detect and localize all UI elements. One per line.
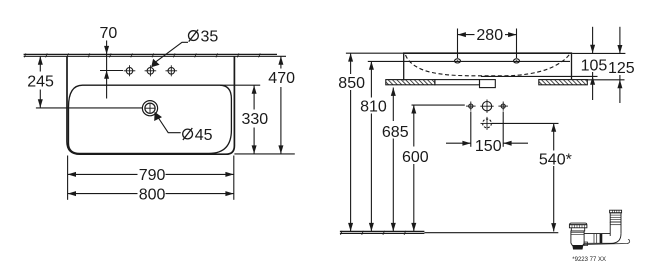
mounting hole big [480, 100, 493, 113]
dim 600 [402, 105, 429, 231]
diameter symbol of O45 [183, 128, 193, 140]
svg-text:35: 35 [201, 28, 219, 45]
diameter symbol of O35 [189, 30, 199, 42]
outer basin outline [67, 56, 234, 154]
basin top edge line [346, 52, 626, 54]
svg-text:850: 850 [338, 75, 365, 92]
svg-text:245: 245 [27, 74, 54, 91]
trap drain flange [569, 223, 587, 228]
basin left edge [403, 53, 405, 80]
mounting hole small right [498, 102, 508, 111]
basin right edge [571, 53, 573, 79]
drain centerline [36, 107, 142, 109]
fixing hole ellipse right [514, 59, 520, 63]
ext line for 540* [492, 122, 559, 124]
trap bottom cap (dark) [572, 245, 583, 249]
dim 105 [581, 27, 608, 100]
underside line (105 level) [481, 75, 572, 77]
faucet hole middle [145, 65, 157, 76]
ext verticals for 790/800 [68, 156, 234, 200]
svg-text:470: 470 [268, 70, 295, 87]
dim 790 [68, 167, 234, 184]
svg-text:790: 790 [139, 167, 166, 184]
svg-text:685: 685 [382, 124, 409, 141]
leader O45 [154, 112, 181, 133]
dim 150 [446, 112, 528, 156]
faucet hole right [166, 65, 178, 76]
ext line bottom of basin for 470/330 [234, 153, 294, 155]
dim 685 [382, 88, 409, 232]
dim 245 [27, 56, 54, 107]
floor hatch ticks [341, 231, 406, 235]
fixing hole ellipse left [455, 59, 461, 63]
mounting hole small left [466, 102, 476, 111]
ext line for 125 [587, 79, 624, 81]
back ledge line [368, 60, 570, 62]
left mounting rail (hatched) [386, 80, 435, 85]
dim 810 [360, 61, 387, 231]
ext line rim top for 330 [220, 84, 260, 86]
wall line (double, hatched) [24, 54, 286, 56]
svg-text:125: 125 [608, 60, 635, 77]
svg-text:600: 600 [402, 149, 429, 166]
svg-text:330: 330 [242, 111, 269, 128]
ext line for 105 [572, 75, 598, 77]
svg-text:*9223 77 XX: *9223 77 XX [572, 257, 606, 263]
dim 800 [68, 186, 234, 203]
dim 125 [608, 27, 635, 103]
dim 470 [268, 56, 295, 154]
trap neck [571, 228, 584, 231]
dim 540* [539, 123, 572, 231]
trap hose line [583, 240, 630, 245]
ext line for 600 (hole row level) [412, 104, 465, 106]
faucet hole left [124, 65, 136, 76]
dim 70 [100, 25, 124, 99]
svg-text:45: 45 [195, 127, 213, 144]
trap vertical pipe [610, 210, 622, 236]
dim 280 [458, 27, 517, 58]
dim 850 [338, 53, 365, 231]
svg-text:280: 280 [476, 27, 503, 44]
inner rim outline [69, 85, 232, 153]
trap elbow [607, 234, 622, 244]
drain stub [480, 80, 496, 88]
svg-text:540*: 540* [539, 151, 572, 168]
svg-text:810: 810 [360, 99, 387, 116]
drain hole (double circle) [142, 101, 157, 116]
dashed hole (540 level) [481, 117, 494, 130]
trap body [571, 231, 588, 246]
svg-text:105: 105 [581, 57, 608, 74]
dim 330 [242, 85, 269, 153]
wall hatch ticks [24, 53, 260, 57]
right mounting rail (hatched) [539, 80, 588, 85]
svg-text:150: 150 [475, 138, 502, 155]
leader O35 [151, 42, 188, 67]
bowl hidden curve (dashed) [406, 54, 571, 76]
svg-text:70: 70 [100, 25, 118, 42]
svg-text:800: 800 [139, 186, 166, 203]
floor line (double, hatched) [340, 231, 558, 233]
trap horizontal pipe [585, 234, 611, 244]
underside channel [435, 80, 480, 85]
